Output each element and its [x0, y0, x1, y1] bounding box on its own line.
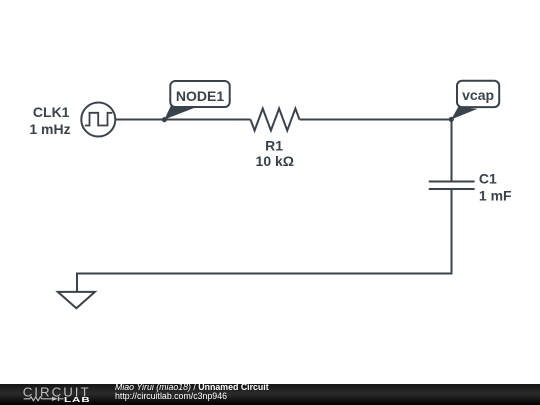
wire from vcap junction down to capacitor C1 top plate — [451, 120, 453, 182]
wire from resistor R1 to vcap junction — [300, 119, 452, 121]
flag vcap box — [457, 81, 499, 107]
wire bottom rail to ground — [77, 274, 452, 293]
svg-text:C1: C1 — [479, 170, 497, 186]
CircuitLab logo — [22, 384, 102, 405]
flag NODE1 pointer — [164, 106, 194, 120]
junction dot at vcap — [449, 117, 454, 122]
node dot NODE1 junction — [162, 117, 167, 122]
ground — [58, 292, 95, 308]
resistor R1 — [251, 109, 300, 131]
svg-text:R1: R1 — [265, 138, 283, 154]
clock source CLK1 — [81, 103, 115, 137]
footer bar — [0, 384, 540, 405]
svg-text:LAB: LAB — [64, 396, 91, 404]
svg-text:1 mF: 1 mF — [479, 188, 512, 204]
svg-text:1 mHz: 1 mHz — [29, 121, 70, 137]
svg-text:CLK1: CLK1 — [33, 104, 70, 120]
wire from capacitor C1 bottom plate down to bottom rail — [451, 189, 453, 274]
flag vcap pointer — [451, 107, 477, 120]
footer credit text — [115, 383, 269, 401]
capacitor C1 bottom plate — [429, 188, 475, 190]
capacitor C1 top plate — [429, 181, 475, 183]
svg-text:vcap: vcap — [462, 87, 494, 103]
wire from CLK1 output to NODE1/resistor — [116, 119, 251, 121]
flag NODE1 box — [170, 81, 229, 107]
svg-text:10 kΩ: 10 kΩ — [256, 153, 294, 169]
svg-text:NODE1: NODE1 — [176, 88, 224, 104]
